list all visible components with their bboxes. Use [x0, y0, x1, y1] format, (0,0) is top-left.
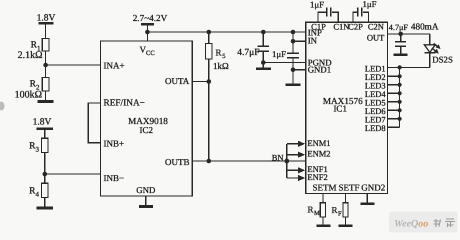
- svg-text:1μF: 1μF: [272, 49, 286, 59]
- junction LED4: [398, 91, 402, 95]
- junction rail/R5: [207, 30, 212, 35]
- svg-text:ENF2: ENF2: [307, 172, 327, 182]
- label R2: [30, 80, 40, 92]
- power supply 1.8V (divider 1): [39, 23, 54, 38]
- wire LED4: [388, 92, 400, 94]
- ground (output cap): [394, 53, 408, 55]
- pin LED1..LED8 labels: [365, 64, 387, 134]
- svg-text:1kΩ: 1kΩ: [213, 61, 229, 71]
- ground (input 1uF): [285, 84, 300, 87]
- arrow into ENM1: [287, 141, 305, 147]
- svg-text:R: R: [216, 48, 222, 58]
- svg-text:REF/INA−: REF/INA−: [104, 98, 145, 108]
- ground (RF): [339, 224, 353, 227]
- svg-text:1μF: 1μF: [362, 0, 376, 9]
- svg-text:3: 3: [36, 146, 40, 154]
- capacitor 1uF (input): [287, 32, 299, 84]
- junction rail/C(4.7uF): [261, 30, 266, 35]
- svg-text:BN: BN: [272, 152, 284, 162]
- label R4: [29, 187, 39, 199]
- junction LED3: [398, 83, 402, 87]
- svg-text:GND2: GND2: [361, 183, 385, 193]
- svg-text:SETF: SETF: [338, 183, 359, 193]
- svg-text:OUT: OUT: [367, 32, 385, 42]
- resistor R3: [42, 138, 49, 152]
- svg-text:LED8: LED8: [365, 123, 386, 133]
- svg-text:C2P: C2P: [348, 21, 363, 31]
- junction LED6: [398, 108, 402, 112]
- watermark: [389, 212, 458, 233]
- svg-text:OUTA: OUTA: [165, 76, 190, 86]
- wire Vcc rail: [147, 31, 305, 33]
- IC1 MAX1576 box: [306, 22, 388, 193]
- wire R1 to node A: [45, 51, 47, 78]
- resistor R4: [42, 183, 49, 197]
- svg-text:INB−: INB−: [104, 173, 125, 183]
- junction PGND/cap: [261, 60, 266, 65]
- svg-text:GND1: GND1: [308, 64, 331, 74]
- svg-text:GND: GND: [136, 185, 155, 195]
- svg-text:4: 4: [36, 191, 40, 199]
- node B junction: [43, 172, 48, 177]
- junction LED1: [398, 65, 402, 69]
- wire LED5: [388, 101, 400, 103]
- label R3: [29, 142, 39, 154]
- capacitor 4.7uF (output): [395, 34, 406, 54]
- svg-text:INA+: INA+: [104, 61, 125, 71]
- svg-text:ENM1: ENM1: [307, 138, 330, 148]
- label R5: [216, 48, 226, 61]
- wire GND1: [293, 69, 306, 71]
- resistor R2: [42, 78, 49, 91]
- svg-text:1μF: 1μF: [310, 0, 324, 10]
- svg-text:OUTB: OUTB: [165, 157, 190, 167]
- LED DS2S: [424, 34, 440, 68]
- resistor RF: [343, 194, 348, 226]
- wire OUTB / node BN: [192, 160, 305, 162]
- svg-text:R: R: [308, 205, 314, 215]
- wire OUTA to R5 node: [192, 81, 209, 83]
- label RM: [308, 205, 321, 218]
- wire LED2: [388, 75, 400, 77]
- arrow into ENM2: [287, 152, 305, 158]
- arrow into ENF2: [287, 175, 305, 181]
- ground (below R4): [37, 206, 54, 209]
- svg-text:2.1kΩ: 2.1kΩ: [18, 50, 43, 61]
- junction OUTA: [207, 79, 212, 84]
- wire node B to INB-: [45, 173, 101, 175]
- svg-text:1.8V: 1.8V: [37, 13, 56, 23]
- wire LED7: [388, 118, 400, 120]
- svg-text:R: R: [332, 205, 338, 215]
- svg-text:IC1: IC1: [333, 104, 347, 114]
- svg-text:CC: CC: [146, 50, 155, 57]
- wire rail to IC2 Vcc: [146, 32, 148, 41]
- wire LED cathode return: [400, 66, 430, 68]
- label R1: [31, 41, 41, 53]
- wire R2 to ground: [45, 91, 47, 101]
- power supply 2.7~4.2V: [141, 24, 154, 32]
- svg-text:SETM: SETM: [312, 183, 336, 193]
- svg-text:WeeQoo: WeeQoo: [394, 219, 428, 230]
- ground (input 4.7uF): [256, 67, 271, 70]
- wire R4 to ground: [44, 198, 46, 208]
- wire REF/INA- feedback loop to INB+: [88, 103, 100, 143]
- wire R3 to node B: [44, 153, 46, 184]
- svg-text:4.7μF: 4.7μF: [389, 23, 409, 32]
- capacitor 4.7uF (input): [258, 32, 270, 68]
- junction OUT/cap: [398, 32, 403, 37]
- resistor R5: [206, 32, 213, 161]
- svg-text:C1N: C1N: [333, 21, 349, 31]
- comparator IC2 MAX9018 box: [101, 41, 193, 196]
- wire IN: [293, 40, 306, 42]
- junction GND1/cap: [291, 67, 296, 72]
- capacitor C1 1uF (top): [318, 8, 338, 23]
- svg-text:F: F: [338, 210, 342, 217]
- svg-text:480mA: 480mA: [411, 21, 439, 31]
- ground (below R2): [38, 100, 54, 103]
- wire IC2 GND lead: [145, 196, 147, 206]
- wire LED bus vertical: [399, 67, 401, 127]
- wire OUT: [388, 33, 430, 35]
- wire GND2 lead: [366, 194, 368, 204]
- power supply 1.8V (divider 2): [36, 129, 53, 138]
- junction IN/cap: [291, 39, 296, 44]
- svg-text:ENM2: ENM2: [307, 149, 330, 159]
- wire EN vertical bus: [286, 144, 288, 178]
- svg-text:5: 5: [222, 53, 225, 60]
- svg-text:IN: IN: [308, 35, 318, 45]
- svg-text:2.7~4.2V: 2.7~4.2V: [133, 13, 168, 23]
- junction rail/C(1uF): [291, 30, 296, 35]
- junction LED7: [398, 117, 402, 121]
- junction rail/Vcc: [145, 30, 150, 35]
- capacitor C2 1uF (top): [353, 8, 368, 23]
- svg-text:DS2S: DS2S: [432, 55, 453, 65]
- svg-text:4.7μF: 4.7μF: [237, 48, 259, 58]
- svg-text:1.8V: 1.8V: [33, 117, 52, 127]
- svg-text:INB+: INB+: [104, 138, 125, 148]
- resistor R1: [42, 39, 49, 52]
- wire LED1: [388, 66, 400, 68]
- junction R5/OUTB: [207, 159, 212, 164]
- ground (IC2 GND): [139, 205, 153, 208]
- junction LED5: [398, 100, 402, 104]
- junction LED2: [398, 74, 402, 78]
- node A junction: [43, 63, 48, 68]
- wire LED3: [388, 84, 400, 86]
- junction BN bus: [284, 159, 289, 164]
- stray scan smudge: [0, 102, 5, 111]
- label RF: [332, 205, 343, 218]
- arrow into ENF1: [287, 167, 305, 173]
- svg-text:100kΩ: 100kΩ: [15, 90, 42, 101]
- svg-text:IC2: IC2: [140, 125, 154, 135]
- wire PGND: [263, 62, 306, 64]
- resistor RM: [320, 194, 325, 226]
- pin Vcc label: [140, 45, 155, 57]
- wire LED8: [388, 126, 400, 128]
- ground (GND2): [361, 203, 375, 206]
- svg-text:C2N: C2N: [368, 21, 384, 31]
- ground (RM): [317, 224, 331, 227]
- wire node A to INA+: [46, 64, 101, 66]
- wire LED6: [388, 109, 400, 111]
- svg-text:M: M: [314, 210, 320, 217]
